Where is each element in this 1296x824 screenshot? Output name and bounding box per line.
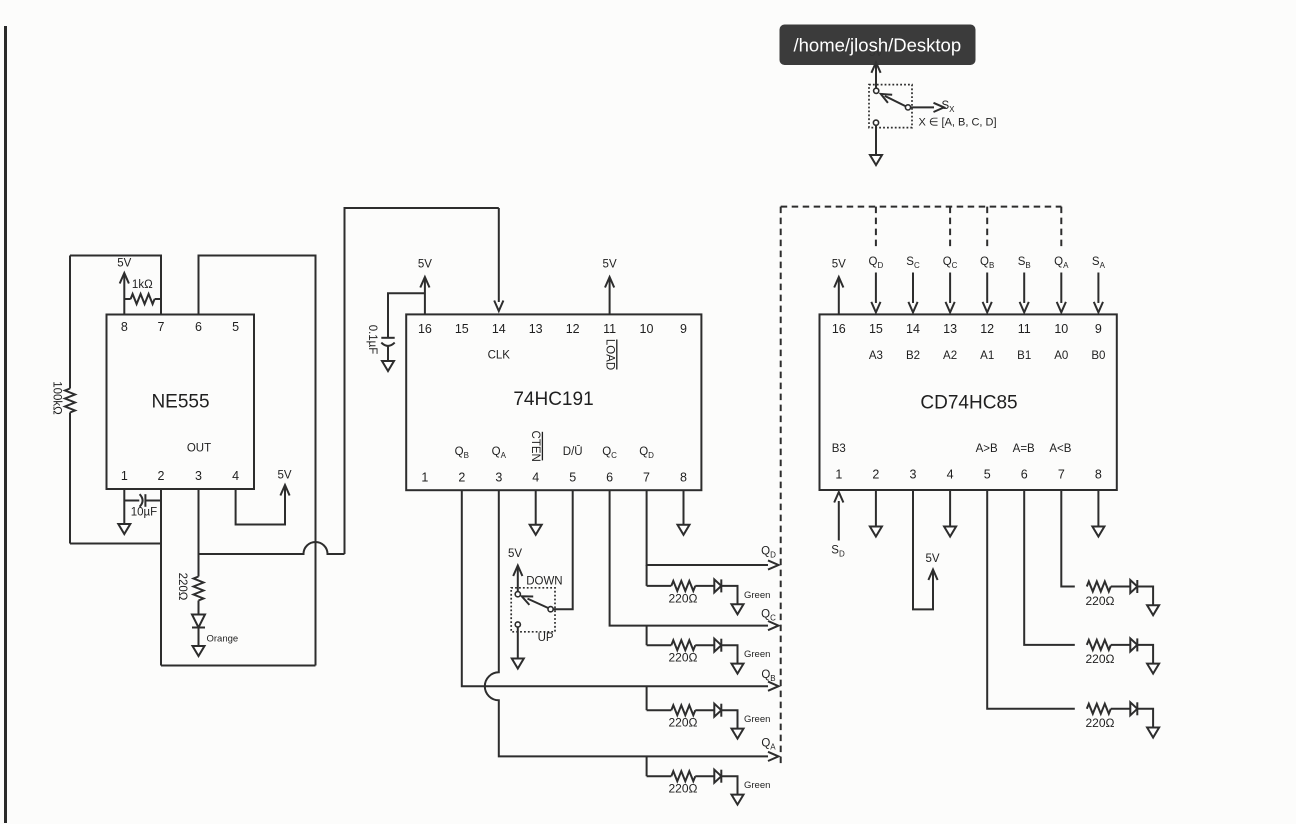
power 5V arrow at U2 pin 11: [603, 259, 617, 315]
svg-text:5: 5: [569, 471, 576, 485]
wire QB branch drop: [646, 686, 648, 710]
svg-text:10µF: 10µF: [131, 506, 157, 518]
ground (QA LED): [732, 795, 744, 805]
switch S2 SX dotted box: [869, 85, 912, 128]
svg-text:220Ω: 220Ω: [669, 782, 698, 796]
svg-text:6: 6: [195, 320, 202, 334]
wire pin4 to 5V: [236, 486, 285, 525]
ground at U2 pin 4: [530, 525, 542, 535]
svg-text:5V: 5V: [603, 259, 617, 271]
IC U1 NE555 body: [107, 315, 255, 490]
switch S2 pole contact: [905, 105, 910, 110]
svg-text:16: 16: [418, 322, 432, 336]
wire U2 pin 3 QA with hop over QB: [485, 490, 779, 761]
ground (QB LED): [732, 729, 744, 739]
resistor 220 ohm (QD): [647, 581, 698, 606]
wire switch S1 bottom to ground: [517, 627, 519, 658]
ground at U3 pin 4: [944, 527, 956, 537]
svg-text:Green: Green: [744, 590, 770, 601]
resistor 220 ohm (A&lt;B): [1086, 582, 1115, 608]
LED Green (QC): [714, 639, 770, 661]
wire U2 pin 5 to switch: [554, 490, 573, 609]
ground (A&lt;B): [1147, 605, 1159, 615]
svg-text:QD: QD: [639, 446, 654, 460]
svg-text:220Ω: 220Ω: [669, 651, 698, 665]
signal SA arrow into U3 pin 9: [1092, 256, 1106, 313]
svg-text:QC: QC: [602, 446, 617, 460]
LED (A&gt;B): [1130, 702, 1137, 715]
U1 top pin numbers 8 7 6 5: [121, 320, 239, 334]
svg-text:5V: 5V: [508, 548, 522, 560]
svg-text:Orange: Orange: [207, 634, 239, 645]
svg-text:QB: QB: [761, 669, 775, 683]
wire U3 A&gt;B output: [987, 490, 1075, 709]
svg-text:12: 12: [980, 322, 994, 336]
wire QC branch drop: [646, 626, 648, 646]
svg-text:A=B: A=B: [1013, 443, 1035, 455]
wire pin2 lower segment: [160, 489, 162, 666]
ground below Orange LED: [193, 646, 205, 656]
svg-text:SX: SX: [941, 100, 955, 114]
svg-text:6: 6: [1021, 468, 1028, 482]
svg-text:B0: B0: [1091, 350, 1105, 362]
svg-text:QA: QA: [761, 738, 776, 752]
capacitor C1 10uF between pin1 and pin2: [124, 494, 161, 518]
signal QA arrow into U3 pin 10: [1054, 256, 1069, 313]
tooltip /home/jlosh/Desktop: [780, 25, 976, 66]
wire U3 pin 8 to ground: [1097, 490, 1099, 527]
svg-text:8: 8: [1095, 468, 1102, 482]
svg-text:B2: B2: [906, 350, 920, 362]
LED (A=B): [1130, 638, 1137, 651]
svg-text:8: 8: [680, 471, 687, 485]
switch S1 arm arrow: [520, 592, 548, 608]
signal QB arrow into U3 pin 12: [980, 256, 994, 313]
switch S1 pole contact: [548, 607, 553, 612]
dashed bus drop to U3 QC: [949, 207, 951, 249]
svg-text:7: 7: [1058, 468, 1065, 482]
LED Green (QA): [714, 770, 770, 792]
svg-text:2: 2: [458, 471, 465, 485]
ground (QD LED): [732, 604, 744, 614]
svg-text:8: 8: [121, 320, 128, 334]
svg-text:11: 11: [1018, 322, 1031, 336]
U3 top pin numbers 16..9: [832, 322, 1102, 336]
dashed bus horizontal: [781, 206, 1062, 208]
svg-text:X ∈ [A, B, C, D]: X ∈ [A, B, C, D]: [919, 117, 997, 129]
wire pin6 riser and loop to right: [199, 256, 316, 666]
svg-text:4: 4: [232, 469, 239, 483]
U2 bottom pin numbers 1..8: [421, 471, 687, 485]
power 5V arrow at U1 pin 8: [117, 258, 131, 315]
svg-text:13: 13: [943, 322, 957, 336]
svg-text:/home/jlosh/Desktop: /home/jlosh/Desktop: [794, 35, 962, 56]
svg-text:14: 14: [492, 322, 506, 336]
wire to LED (A=B): [1111, 644, 1130, 646]
svg-text:3: 3: [495, 471, 502, 485]
svg-text:CLK: CLK: [488, 350, 511, 362]
svg-text:3: 3: [910, 468, 917, 482]
wire resistor to LED: [198, 601, 200, 615]
svg-text:4: 4: [532, 471, 539, 485]
svg-text:DOWN: DOWN: [526, 575, 562, 587]
wire QA LED to ground: [721, 776, 737, 794]
dashed bus drop to U3 QB: [986, 207, 988, 249]
svg-text:QD: QD: [761, 546, 776, 560]
ground at U1 pin 1: [118, 524, 130, 534]
signal QD arrow into U3 pin 15: [869, 256, 884, 313]
dashed bus drop to U3 QD: [875, 207, 877, 249]
svg-text:A>B: A>B: [976, 443, 998, 455]
svg-text:QB: QB: [980, 256, 994, 270]
wire pin1 to ground: [123, 489, 125, 524]
svg-text:3: 3: [195, 469, 202, 483]
svg-text:5: 5: [984, 468, 991, 482]
svg-text:Green: Green: [744, 780, 770, 791]
svg-text:12: 12: [566, 322, 580, 336]
svg-text:220Ω: 220Ω: [669, 716, 698, 730]
resistor 220 ohm (QB): [647, 705, 698, 730]
svg-text:2: 2: [158, 469, 165, 483]
LED Green (QD): [714, 579, 770, 601]
svg-text:A2: A2: [943, 350, 957, 362]
wire LED to ground (A&lt;B): [1137, 587, 1153, 606]
svg-text:QC: QC: [761, 609, 776, 623]
wire U3 pin 4 to ground: [949, 490, 951, 527]
svg-text:14: 14: [906, 322, 920, 336]
svg-text:1: 1: [121, 469, 128, 483]
switch S1 UP/DOWN dotted box: [511, 588, 555, 632]
svg-text:5V: 5V: [832, 259, 846, 271]
U1 bottom pin numbers 1 2 3 4: [121, 469, 239, 483]
signal SB arrow into U3 pin 11: [1018, 256, 1031, 313]
dashed bus drop to U3 QA: [1060, 207, 1062, 249]
wire CLK arrow into U2 pin 14: [494, 208, 503, 311]
wire bottom return: [161, 665, 316, 667]
wire bypass cap branch: [388, 293, 425, 337]
svg-text:A<B: A<B: [1049, 443, 1071, 455]
wire QC LED branch: [695, 644, 714, 646]
svg-text:11: 11: [603, 322, 616, 336]
wire U3 pin 3 to 5V: [913, 490, 933, 609]
wire U3 A=B output: [1024, 490, 1075, 645]
svg-text:0.1µF: 0.1µF: [366, 325, 378, 355]
IC U2 74HC191 body: [406, 314, 701, 490]
ground (QC LED): [732, 664, 744, 674]
ground below C2: [382, 361, 394, 371]
ground (A&gt;B): [1147, 728, 1159, 738]
wire SX output with arrow: [911, 103, 944, 112]
svg-text:SD: SD: [831, 545, 845, 559]
switch S1 top contact: [515, 592, 520, 597]
signal SD arrow into U3 pin 1: [831, 492, 845, 558]
U2 pin4 label CTEN with overline: [529, 431, 542, 462]
svg-text:SC: SC: [906, 256, 920, 270]
wire U3 pin 2 to ground: [875, 490, 877, 527]
wire CLK riser to top: [345, 208, 499, 554]
wire 100k bottom to pin 2 net: [70, 543, 161, 545]
svg-text:B3: B3: [832, 443, 846, 455]
resistor R3 220 ohm on LED branch: [176, 573, 204, 601]
svg-text:A1: A1: [980, 350, 994, 362]
svg-text:UP: UP: [538, 632, 554, 644]
IC U3 CD74HC85 body: [820, 314, 1117, 490]
svg-text:5V: 5V: [418, 259, 432, 271]
capacitor C2 0.1uF: [366, 325, 395, 361]
svg-text:NE555: NE555: [151, 392, 209, 413]
wire QC LED to ground: [721, 645, 737, 663]
ground at U3 pin 2: [870, 527, 882, 537]
U3 bottom pin numbers 1..8: [835, 468, 1102, 482]
wire U2 pin 7 QD to bus: [647, 490, 779, 569]
svg-text:CTEN: CTEN: [529, 431, 541, 462]
svg-text:7: 7: [158, 320, 165, 334]
power 5V arrow at U2 pin 16: [418, 259, 432, 315]
svg-text:SA: SA: [1092, 256, 1106, 270]
svg-text:74HC191: 74HC191: [513, 389, 593, 410]
wire QD LED branch: [695, 585, 714, 587]
svg-text:15: 15: [455, 322, 469, 336]
wire QB LED branch: [695, 709, 714, 711]
resistor 220 ohm (QC): [647, 640, 698, 665]
ground at U3 pin 8: [1092, 527, 1104, 537]
ground below switch S1: [512, 659, 524, 669]
svg-text:13: 13: [529, 322, 543, 336]
wire switch S2 bottom to ground: [875, 126, 877, 155]
svg-text:1: 1: [835, 468, 842, 482]
signal QC arrow into U3 pin 13: [943, 256, 958, 313]
svg-text:10: 10: [640, 322, 654, 336]
power 5V arrow above switch S2: [871, 62, 880, 87]
svg-text:QB: QB: [455, 446, 469, 460]
svg-text:220Ω: 220Ω: [176, 573, 188, 601]
wire U3 A&lt;B output: [1061, 490, 1075, 587]
LED (A&lt;B): [1130, 580, 1137, 593]
svg-text:A0: A0: [1054, 350, 1068, 362]
svg-text:Green: Green: [744, 649, 770, 660]
wire U2 pin 4 to ground: [535, 490, 537, 525]
wire U1 pin3 output down: [198, 489, 200, 577]
svg-text:A3: A3: [869, 350, 883, 362]
wire to LED (A&lt;B): [1111, 586, 1130, 588]
svg-text:220Ω: 220Ω: [1086, 716, 1115, 730]
svg-text:LOAD: LOAD: [604, 339, 616, 370]
dashed bus vertical: [780, 207, 782, 764]
LED D1 Orange: [192, 615, 238, 645]
svg-text:4: 4: [947, 468, 954, 482]
wire QA branch drop: [646, 756, 648, 776]
power 5V arrow on U3 pin 3 net: [925, 553, 939, 580]
svg-text:5: 5: [232, 320, 239, 334]
resistor 220 ohm (A&gt;B): [1086, 704, 1115, 730]
svg-text:2: 2: [872, 468, 879, 482]
svg-text:QA: QA: [492, 446, 507, 460]
wire U2 pin 8 to ground: [683, 490, 685, 525]
svg-text:B1: B1: [1017, 350, 1031, 362]
svg-text:1kΩ: 1kΩ: [132, 279, 153, 291]
svg-text:15: 15: [869, 322, 883, 336]
svg-text:SB: SB: [1018, 256, 1031, 270]
U3 input labels A3 B2 A2 A1 B1 A0 B0: [869, 350, 1106, 362]
switch S2 bottom contact: [873, 120, 878, 125]
svg-text:5V: 5V: [925, 553, 939, 565]
wire to LED (A&gt;B): [1111, 708, 1130, 710]
wire QB LED to ground: [721, 710, 737, 728]
wire LED to ground (A=B): [1137, 645, 1153, 664]
wire QA LED branch: [695, 775, 714, 777]
resistor 220 ohm (A=B): [1086, 640, 1115, 666]
U2 top pin numbers 16..9: [418, 322, 687, 336]
ground (A=B): [1147, 664, 1159, 674]
svg-text:10: 10: [1054, 322, 1068, 336]
svg-text:6: 6: [606, 471, 613, 485]
wire U2 pin 2 QB to bus: [462, 490, 779, 691]
signal SC arrow into U3 pin 14: [906, 256, 920, 313]
wire LED to ground: [198, 628, 200, 647]
ground at U2 pin 8: [678, 525, 690, 535]
svg-text:QD: QD: [869, 256, 884, 270]
svg-text:1: 1: [421, 471, 428, 485]
wire U2 pin 6 QC to bus: [610, 490, 779, 630]
svg-text:220Ω: 220Ω: [669, 591, 698, 605]
ground below switch S2: [870, 155, 882, 165]
wire QD branch drop: [646, 565, 648, 586]
svg-text:CD74HC85: CD74HC85: [920, 393, 1017, 414]
svg-text:OUT: OUT: [187, 443, 211, 455]
svg-text:7: 7: [643, 471, 650, 485]
LED Green (QB): [714, 704, 770, 726]
switch S2 arm arrow: [879, 90, 906, 106]
svg-text:220Ω: 220Ω: [1086, 652, 1115, 666]
svg-text:220Ω: 220Ω: [1086, 594, 1115, 608]
page left border line: [4, 26, 7, 823]
svg-text:Green: Green: [744, 714, 770, 725]
power 5V arrow at U1 pin 4: [277, 470, 291, 496]
svg-text:5V: 5V: [117, 258, 131, 270]
svg-text:100kΩ: 100kΩ: [51, 381, 63, 415]
wire QD LED to ground: [721, 586, 737, 604]
power 5V arrow above switch S1: [508, 548, 522, 591]
U2 pin11 label LOAD with overline: [604, 339, 617, 370]
svg-text:QA: QA: [1054, 256, 1069, 270]
svg-text:9: 9: [680, 322, 687, 336]
switch S2 top contact: [874, 88, 879, 93]
svg-text:5V: 5V: [277, 470, 291, 482]
wire pin7 riser: [70, 256, 161, 315]
resistor 220 ohm (QA): [647, 771, 698, 796]
wire LED to ground (A&gt;B): [1137, 709, 1153, 728]
power 5V arrow at U3 pin 16: [832, 259, 846, 315]
svg-text:QC: QC: [943, 256, 958, 270]
svg-text:9: 9: [1095, 322, 1102, 336]
svg-text:D/Ū: D/Ū: [563, 446, 583, 458]
switch S1 bottom contact: [515, 622, 520, 627]
svg-text:16: 16: [832, 322, 846, 336]
wire node CLK tap with hop over vertical: [199, 542, 345, 554]
resistor R1 1k between pins 8 and 7: [124, 279, 161, 304]
resistor R2 100k on left branch: [51, 256, 76, 544]
